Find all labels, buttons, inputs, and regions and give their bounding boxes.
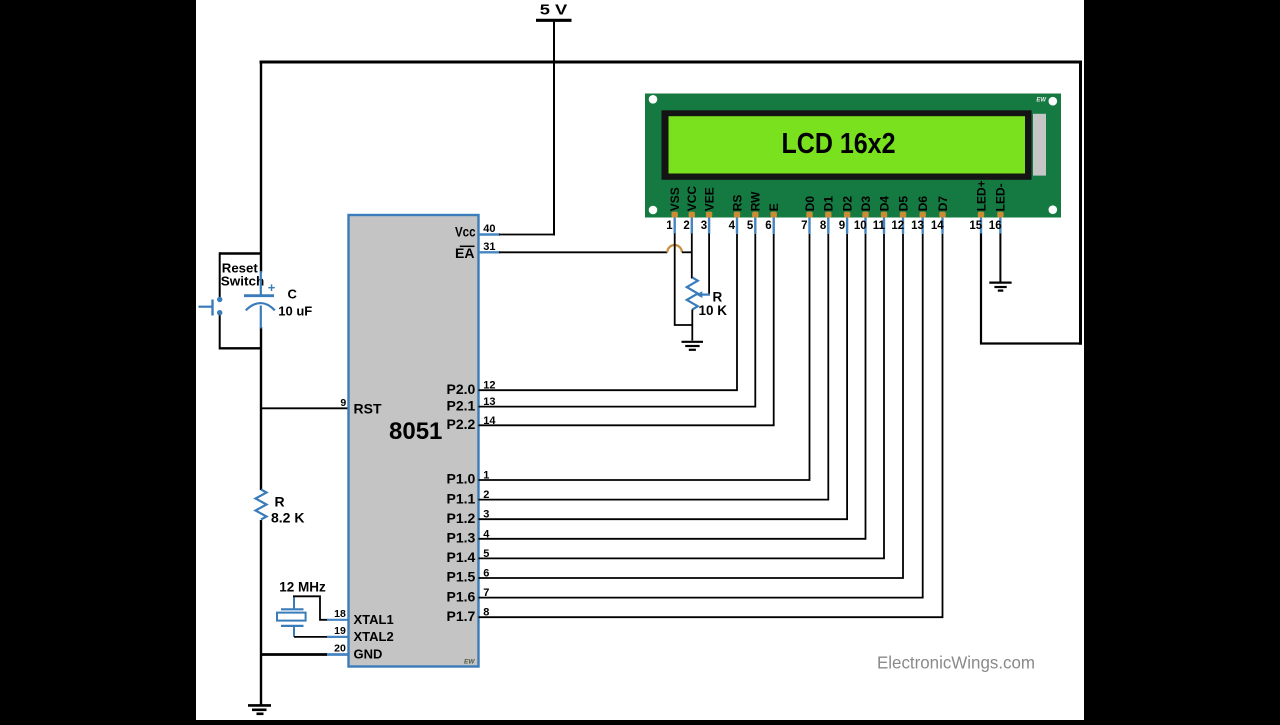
svg-text:20: 20 <box>334 643 346 655</box>
svg-text:12: 12 <box>483 380 495 392</box>
svg-text:D0: D0 <box>803 196 817 212</box>
svg-text:C: C <box>288 287 298 302</box>
svg-text:D6: D6 <box>916 196 930 212</box>
svg-text:8: 8 <box>820 220 827 232</box>
svg-text:P1.2: P1.2 <box>446 510 475 526</box>
svg-text:D3: D3 <box>859 196 873 212</box>
svg-text:P2.0: P2.0 <box>446 381 475 397</box>
svg-text:P2.1: P2.1 <box>446 397 475 413</box>
svg-text:P2.2: P2.2 <box>446 416 475 432</box>
svg-text:12 MHz: 12 MHz <box>279 579 326 594</box>
svg-text:D5: D5 <box>896 196 910 212</box>
svg-text:16: 16 <box>989 220 1002 232</box>
svg-text:3: 3 <box>701 220 707 232</box>
svg-text:D1: D1 <box>822 196 836 212</box>
svg-text:13: 13 <box>911 220 924 232</box>
svg-text:8051: 8051 <box>389 418 442 445</box>
svg-text:10 K: 10 K <box>699 303 728 318</box>
svg-text:LCD 16x2: LCD 16x2 <box>782 128 896 160</box>
svg-text:2: 2 <box>683 220 689 232</box>
svg-text:7: 7 <box>483 587 489 599</box>
svg-text:5 V: 5 V <box>540 2 568 19</box>
svg-text:R: R <box>275 493 285 509</box>
svg-text:P1.3: P1.3 <box>446 530 475 546</box>
svg-text:D2: D2 <box>840 196 854 212</box>
svg-text:P1.7: P1.7 <box>446 608 475 624</box>
svg-text:P1.4: P1.4 <box>446 549 475 565</box>
svg-text:14: 14 <box>931 220 944 232</box>
svg-text:1: 1 <box>483 470 489 482</box>
svg-text:9: 9 <box>839 220 845 232</box>
svg-text:Switch: Switch <box>221 274 265 289</box>
svg-text:15: 15 <box>969 220 982 232</box>
svg-text:12: 12 <box>891 220 904 232</box>
svg-text:31: 31 <box>483 241 495 253</box>
svg-text:XTAL2: XTAL2 <box>354 629 394 644</box>
svg-text:1: 1 <box>666 220 673 232</box>
svg-text:9: 9 <box>340 397 346 409</box>
svg-text:RW: RW <box>749 191 763 211</box>
svg-text:P1.6: P1.6 <box>446 588 475 604</box>
svg-text:VEE: VEE <box>702 187 716 211</box>
svg-text:4: 4 <box>483 528 490 540</box>
svg-text:+: + <box>268 280 276 295</box>
svg-text:18: 18 <box>334 608 346 620</box>
svg-text:10 uF: 10 uF <box>278 304 312 319</box>
svg-text:3: 3 <box>483 509 489 521</box>
svg-text:LED+: LED+ <box>974 180 988 211</box>
svg-text:D4: D4 <box>877 196 891 212</box>
svg-text:6: 6 <box>483 568 489 580</box>
svg-text:14: 14 <box>483 415 496 427</box>
svg-text:ElectronicWings.com: ElectronicWings.com <box>877 652 1035 672</box>
svg-text:11: 11 <box>873 220 886 232</box>
svg-text:EW: EW <box>464 659 475 666</box>
svg-text:5: 5 <box>747 220 754 232</box>
svg-text:8: 8 <box>483 607 489 619</box>
svg-text:8.2 K: 8.2 K <box>271 509 304 525</box>
svg-text:Vcc: Vcc <box>455 224 476 240</box>
svg-text:XTAL1: XTAL1 <box>354 612 394 627</box>
svg-text:19: 19 <box>334 625 346 637</box>
svg-text:LED-: LED- <box>994 183 1008 211</box>
svg-text:13: 13 <box>483 396 495 408</box>
svg-text:EA: EA <box>455 245 474 261</box>
svg-text:2: 2 <box>483 489 489 501</box>
svg-text:VCC: VCC <box>685 186 699 212</box>
svg-text:7: 7 <box>801 220 807 232</box>
svg-text:10: 10 <box>854 220 867 232</box>
svg-text:RS: RS <box>730 195 744 212</box>
svg-text:5: 5 <box>483 548 489 560</box>
svg-text:VSS: VSS <box>668 187 682 211</box>
svg-text:GND: GND <box>354 647 383 662</box>
svg-text:EW: EW <box>1036 98 1047 104</box>
svg-text:P1.5: P1.5 <box>446 569 475 585</box>
svg-text:RST: RST <box>354 400 382 416</box>
svg-text:4: 4 <box>729 220 736 232</box>
svg-text:P1.0: P1.0 <box>446 471 475 487</box>
svg-text:6: 6 <box>765 220 771 232</box>
svg-text:P1.1: P1.1 <box>446 490 475 506</box>
svg-text:D7: D7 <box>936 196 950 212</box>
svg-text:E: E <box>767 203 781 211</box>
